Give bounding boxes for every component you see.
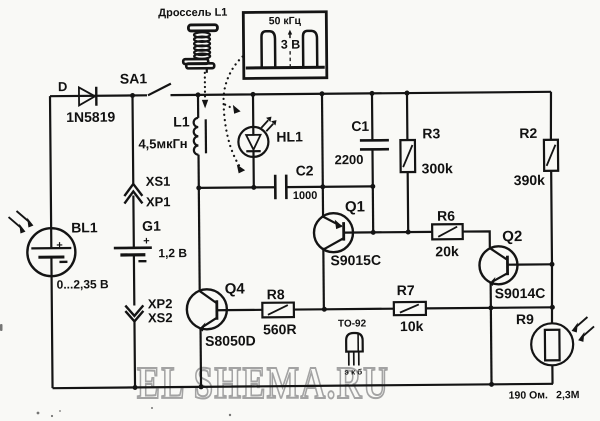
connector XS1/XP1	[124, 174, 170, 210]
svg-text:S9014C: S9014C	[495, 285, 546, 301]
TO-92 package drawing	[338, 318, 367, 376]
transistor Q2 S9014C	[479, 228, 546, 385]
capacitor C1 2200	[334, 93, 389, 186]
resistor R8 560R	[227, 286, 325, 338]
svg-text:XS1: XS1	[146, 174, 171, 189]
svg-text:+: +	[143, 235, 150, 247]
svg-text:0...2,35 В: 0...2,35 В	[57, 277, 109, 291]
wire Q2 base to R2 bottom node	[517, 263, 552, 266]
svg-text:S8050D: S8050D	[205, 332, 256, 348]
wire top rail	[50, 92, 551, 96]
svg-text:XP2: XP2	[148, 296, 173, 311]
wire node row y=187 (L1/HL1/C2)	[199, 186, 373, 188]
svg-text:+: +	[56, 240, 63, 252]
resistor R7 10k	[324, 281, 552, 335]
svg-text:300k: 300k	[422, 160, 453, 176]
resistor R6 20k	[432, 208, 463, 260]
svg-text:R7: R7	[397, 282, 415, 298]
svg-text:C1: C1	[351, 118, 369, 134]
svg-text:Q2: Q2	[502, 228, 522, 245]
svg-text:560R: 560R	[263, 321, 297, 337]
svg-text:R8: R8	[267, 286, 285, 302]
solar cell BL1	[8, 210, 109, 292]
svg-text:C2: C2	[296, 162, 314, 178]
svg-text:1000: 1000	[293, 190, 318, 202]
waveform annotation box	[243, 12, 327, 79]
svg-text:э к б: э к б	[344, 367, 362, 376]
svg-text:4,5мкГн: 4,5мкГн	[138, 136, 187, 151]
photoresistor R9	[515, 264, 594, 384]
svg-text:XP1: XP1	[146, 194, 171, 209]
svg-text:Дроссель L1: Дроссель L1	[158, 7, 227, 20]
svg-text:Q1: Q1	[345, 198, 365, 215]
inductor L1	[138, 95, 206, 189]
svg-text:3 В: 3 В	[281, 37, 301, 51]
svg-text:R9: R9	[516, 311, 534, 327]
svg-text:1,2 В: 1,2 В	[158, 246, 187, 260]
svg-text:S9015C: S9015C	[330, 252, 381, 268]
svg-text:R2: R2	[519, 125, 537, 141]
svg-text:TO-92: TO-92	[338, 318, 367, 329]
svg-text:L1: L1	[173, 113, 190, 129]
svg-text:10k: 10k	[400, 318, 424, 334]
svg-text:SA1: SA1	[120, 70, 148, 86]
svg-text:20k: 20k	[435, 243, 459, 259]
svg-text:D: D	[58, 79, 68, 94]
LED HL1	[238, 94, 303, 188]
battery G1 1,2 B	[114, 217, 188, 261]
wire Q1 base row to R6	[344, 231, 432, 234]
svg-text:50 кГц: 50 кГц	[269, 15, 302, 27]
wire bottom rail	[53, 384, 553, 388]
svg-text:390k: 390k	[514, 172, 545, 188]
label 190 Om 2,3M	[509, 389, 580, 402]
svg-text:EL SHEMA.RU: EL SHEMA.RU	[137, 357, 389, 408]
svg-text:190 Ом. 2,3М: 190 Ом. 2,3М	[509, 389, 580, 402]
switch SA1	[120, 70, 171, 95]
transistor Q1 S9015C	[313, 93, 382, 309]
svg-text:Q4: Q4	[225, 280, 246, 297]
resistor R3 300k	[400, 93, 454, 232]
resistor R2 390k	[513, 92, 559, 265]
dotted arrow from choke to L1	[202, 73, 209, 109]
svg-text:G1: G1	[142, 218, 161, 234]
wire C1 bottom to base row	[372, 186, 375, 232]
diode D 1N5819	[58, 79, 116, 125]
wire left rail	[50, 96, 53, 388]
wire middle rail SA1 to bottom	[132, 95, 135, 387]
svg-text:BL1: BL1	[71, 219, 98, 235]
choke drawing (physical coil)	[158, 7, 228, 74]
scan specks	[0, 324, 231, 417]
svg-text:R6: R6	[437, 208, 455, 224]
svg-text:R3: R3	[422, 125, 440, 141]
dashed branch arrow to LED	[225, 105, 241, 114]
transistor Q4 S8050D	[186, 187, 256, 387]
dashed curve from box to LED area	[223, 56, 245, 173]
svg-text:HL1: HL1	[276, 128, 303, 144]
capacitor C2 1000	[275, 162, 317, 202]
wire R6 to Q2 collector	[463, 231, 490, 248]
svg-text:XS2: XS2	[148, 310, 173, 325]
svg-text:1N5819: 1N5819	[66, 109, 115, 125]
connector XP2/XS2	[125, 296, 172, 325]
svg-text:2200: 2200	[334, 152, 363, 167]
watermark EL SHEMA.RU	[137, 357, 389, 408]
